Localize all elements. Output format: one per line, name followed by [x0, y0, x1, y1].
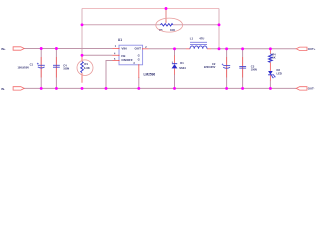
- node U1 gnd: [137, 87, 140, 90]
- wire pot horizontal net: [82, 24, 219, 26]
- node C1 gnd: [40, 87, 43, 90]
- inductor L1: [186, 36, 211, 49]
- connector J OUT-: [296, 87, 314, 91]
- wire right vertical from rail to output: [218, 9, 220, 49]
- svg-text:3.3K: 3.3K: [84, 66, 91, 70]
- wire output net: [149, 48, 297, 50]
- svg-text:1K: 1K: [272, 56, 275, 60]
- svg-text:OUT: OUT: [134, 47, 141, 51]
- node C2 gnd: [225, 87, 228, 90]
- wire R4 LED vertical lower: [269, 80, 271, 88]
- svg-text:VIN: VIN: [121, 47, 127, 51]
- svg-text:L1: L1: [190, 36, 194, 40]
- node FB left pot: [81, 23, 84, 26]
- svg-text:C1: C1: [30, 62, 34, 66]
- node C4 top: [55, 47, 58, 50]
- pin 1 VIN stub: [113, 45, 120, 48]
- connector J OUT+: [296, 47, 316, 51]
- svg-text:100N: 100N: [251, 69, 257, 72]
- svg-text:1: 1: [115, 45, 117, 48]
- svg-text:OUT-: OUT-: [308, 87, 315, 91]
- pin end dots U1: [118, 48, 143, 66]
- resistor R1 with highlight ellipse: [77, 55, 93, 83]
- wire ON/OFF to ground: [106, 61, 113, 89]
- node C4 gnd: [55, 87, 58, 90]
- svg-text:U1: U1: [118, 38, 122, 42]
- node onoff gnd: [105, 87, 108, 90]
- node rail output: [218, 47, 221, 50]
- diode D1 SS34: [172, 56, 187, 75]
- svg-text:LM2596: LM2596: [144, 73, 156, 77]
- svg-text:47U: 47U: [199, 36, 204, 40]
- node LED gnd: [269, 87, 272, 90]
- connector J IN+: [1, 47, 24, 51]
- node pot right: [218, 23, 221, 26]
- capacitor C2: [204, 57, 230, 78]
- node R4 top: [269, 47, 272, 50]
- potentiometer R3 with highlight ellipse: [156, 9, 183, 33]
- svg-text:IN+: IN+: [1, 47, 6, 51]
- node C3 top: [241, 47, 244, 50]
- capacitor C4: [53, 57, 69, 78]
- svg-text:OUT+: OUT+: [308, 47, 316, 51]
- capacitor C1: [17, 57, 44, 78]
- node C3 gnd: [241, 87, 244, 90]
- pin 3 GND stub: [133, 62, 138, 78]
- svg-text:D1: D1: [180, 61, 184, 65]
- pin 5 ON/OFF stub: [113, 58, 120, 61]
- wire C2 vertical: [226, 49, 228, 89]
- node FB wire: [81, 54, 84, 57]
- svg-text:ON/OFF: ON/OFF: [121, 58, 132, 62]
- node R1 gnd: [81, 87, 84, 90]
- wire top feedback rail: [82, 8, 219, 10]
- resistor R4: [269, 49, 277, 71]
- node C2 top: [225, 47, 228, 50]
- capacitor C3: [239, 57, 257, 78]
- svg-text:SS34: SS34: [179, 66, 186, 70]
- wire ground rail: [24, 87, 296, 89]
- pin 2 OUT stub: [143, 46, 149, 49]
- node D1 top: [173, 47, 176, 50]
- node C1 top: [40, 47, 43, 50]
- svg-text:2: 2: [172, 62, 173, 64]
- wire D1 vertical: [174, 49, 176, 89]
- wire left feedback vertical: [81, 9, 83, 56]
- wire C1 vertical: [40, 49, 42, 89]
- svg-text:LED: LED: [277, 71, 282, 75]
- svg-text:IN-: IN-: [1, 87, 5, 91]
- connector J IN-: [1, 87, 24, 91]
- svg-text:100U/50V: 100U/50V: [17, 65, 29, 69]
- wire input net IN+ to VIN: [24, 48, 113, 50]
- svg-text:100N: 100N: [63, 68, 69, 71]
- svg-text:220U/35V: 220U/35V: [204, 65, 216, 69]
- wire C3 vertical: [242, 49, 244, 89]
- node D1 gnd: [173, 87, 176, 90]
- pin 4 FB stub: [113, 53, 120, 56]
- svg-text:G: G: [138, 58, 140, 62]
- node wiper top: [165, 7, 168, 10]
- junction node dots: [40, 7, 272, 90]
- svg-text:D2: D2: [277, 68, 281, 72]
- wire C4 vertical: [55, 49, 57, 89]
- LED D2: [268, 68, 282, 81]
- wire FB net: [82, 54, 113, 56]
- op-amp U1 LM2596 regulator box: [118, 38, 156, 76]
- wire U1 ground pin to rail: [138, 77, 140, 88]
